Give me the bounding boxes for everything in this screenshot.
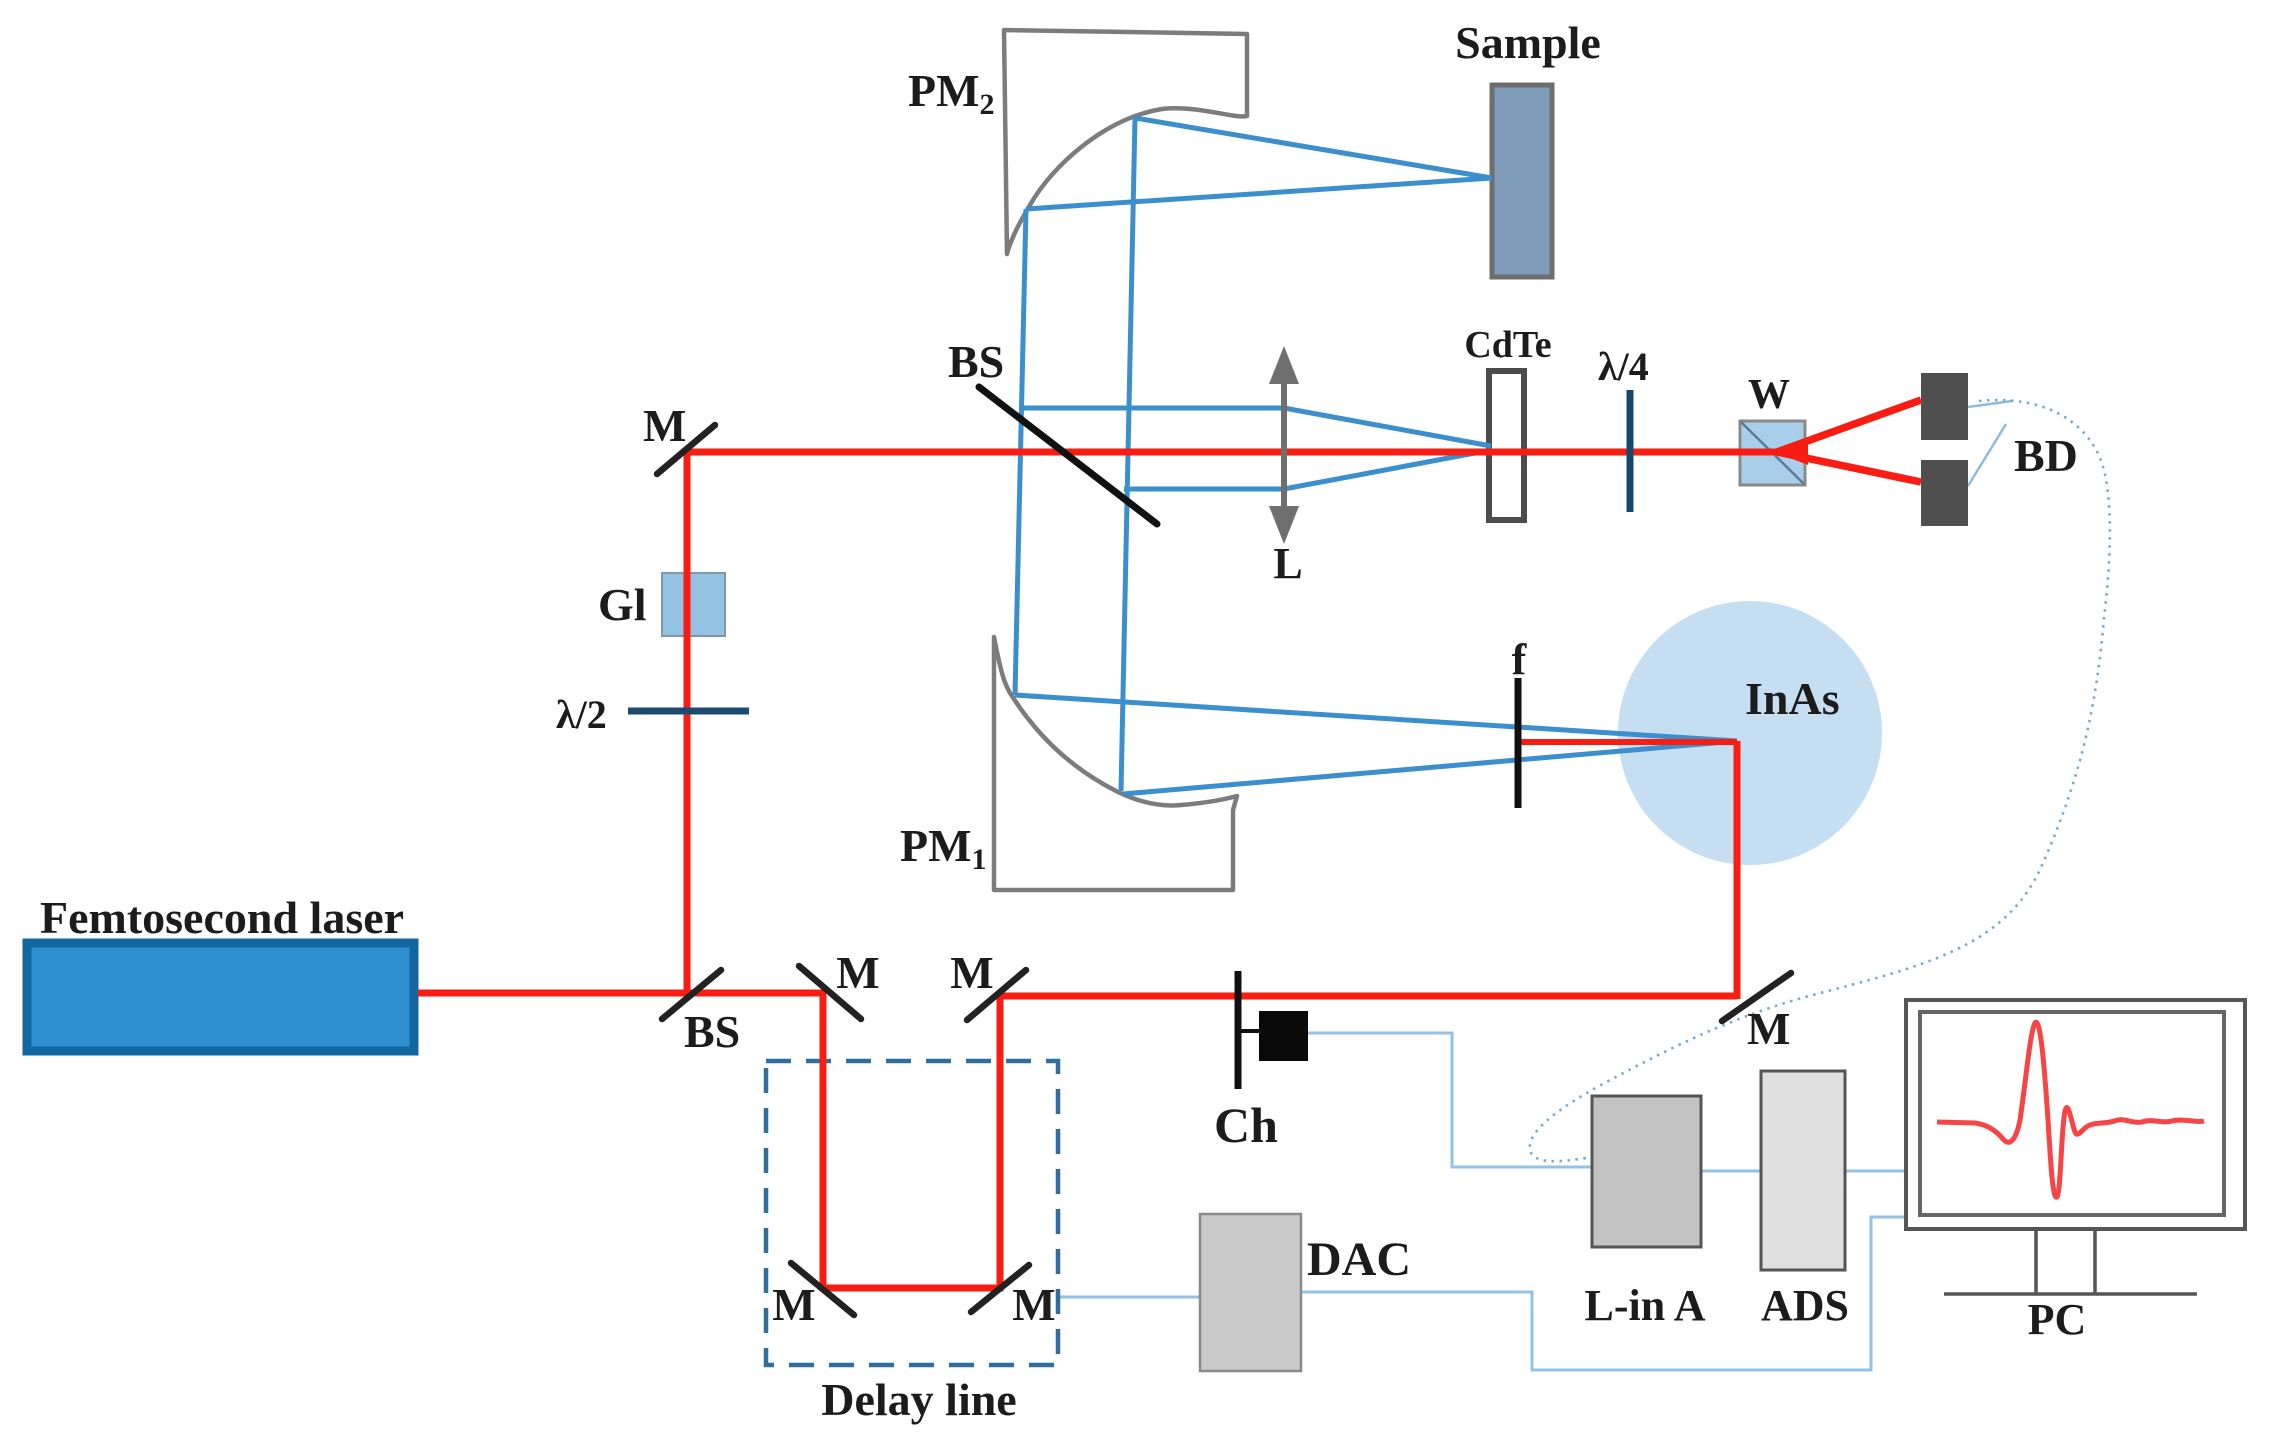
- wire THz beam PM2 to Sample upper: [1135, 118, 1492, 178]
- wire red delay line up: [997, 996, 1004, 1291]
- wire THz beam BS to lens lower: [1124, 450, 1491, 489]
- wire dashed cable BD to L-in A: [1530, 400, 2110, 1161]
- mirror M delay exit: [967, 970, 1026, 1020]
- balanced detector BD bottom: [1921, 460, 1968, 526]
- node InAs emitter circle: [1618, 601, 1882, 865]
- wire red beam W to BD bottom: [1777, 452, 1921, 482]
- Wollaston prism W: [1740, 421, 1805, 485]
- svg-text:Gl: Gl: [598, 579, 647, 630]
- wire red beam W to BD top: [1777, 400, 1921, 452]
- wire THz beam PM1 to InAs upper: [1015, 695, 1737, 741]
- wire ADS to PC monitor: [1845, 1170, 1906, 1173]
- lock-in amplifier L-in A box: [1592, 1096, 1701, 1247]
- svg-text:L-in A: L-in A: [1584, 1281, 1705, 1330]
- svg-text:Ch: Ch: [1214, 1097, 1278, 1153]
- THz waveform trace: [1937, 1022, 2204, 1197]
- mirror M delay entrance: [799, 966, 861, 1019]
- mirror M delay bottom right: [971, 1265, 1029, 1312]
- svg-text:BS: BS: [948, 336, 1004, 387]
- crystal CdTe: [1489, 371, 1524, 520]
- DAC box: [1200, 1214, 1301, 1371]
- svg-text:M: M: [1747, 1003, 1790, 1054]
- lens L arrow: [1281, 374, 1287, 516]
- wire red beam BS up to mirror M: [684, 450, 691, 996]
- wire red beam f to InAs focus: [1520, 739, 1737, 745]
- svg-text:L: L: [1273, 539, 1302, 588]
- svg-text:Delay line: Delay line: [821, 1374, 1016, 1425]
- svg-text:Femtosecond laser: Femtosecond laser: [40, 892, 404, 943]
- svg-text:PM2: PM2: [908, 65, 995, 121]
- wire red arrowhead at W: [1774, 439, 1808, 465]
- mirror M delay bottom left: [791, 1263, 854, 1315]
- PC monitor: [1906, 1000, 2245, 1229]
- wire Ch to lock-in amplifier: [1308, 1033, 1592, 1167]
- wire L-in A to ADS: [1701, 1170, 1761, 1173]
- mirror M far right: [1722, 973, 1791, 1021]
- balanced detector BD top: [1921, 373, 1968, 440]
- polarizer Gl: [662, 573, 725, 636]
- wire red probe beam M to W: [687, 449, 1777, 456]
- wire red pump beam to far mirror: [997, 993, 1737, 1000]
- ADS box: [1761, 1071, 1845, 1270]
- sample plate: [1492, 85, 1552, 277]
- wire red beam laser to delay mirror: [418, 990, 826, 997]
- svg-text:InAs: InAs: [1745, 673, 1840, 724]
- wire THz vertical beam left: [1015, 209, 1026, 695]
- parabolic mirror PM1: [994, 637, 1237, 890]
- svg-text:λ/2: λ/2: [556, 692, 607, 737]
- wire THz beam BS to lens upper: [1023, 408, 1491, 446]
- svg-text:M: M: [1012, 1279, 1055, 1330]
- svg-text:f: f: [1512, 635, 1528, 684]
- svg-text:DAC: DAC: [1307, 1233, 1411, 1286]
- waveplate lambda/2: [628, 708, 749, 715]
- wire THz beam PM2 to Sample lower: [1026, 178, 1492, 209]
- wire BD bottom detector lead: [1968, 424, 2006, 486]
- wire THz vertical beam right: [1121, 118, 1135, 791]
- svg-text:M: M: [643, 400, 686, 451]
- svg-text:BD: BD: [2014, 430, 2078, 481]
- wire BD top detector lead: [1968, 401, 2012, 407]
- svg-text:λ/4: λ/4: [1598, 344, 1649, 389]
- svg-text:PM1: PM1: [900, 820, 987, 876]
- svg-text:Sample: Sample: [1455, 17, 1601, 68]
- chopper Ch: [1235, 971, 1242, 1089]
- PC stand: [2036, 1229, 2095, 1294]
- svg-text:ADS: ADS: [1761, 1281, 1849, 1330]
- svg-text:M: M: [772, 1279, 815, 1330]
- wire THz beam PM1 to InAs lower: [1123, 741, 1737, 794]
- svg-text:W: W: [1748, 372, 1790, 418]
- wire red delay line down: [820, 990, 827, 1288]
- svg-text:CdTe: CdTe: [1464, 324, 1551, 366]
- filter f: [1515, 678, 1522, 808]
- beamsplitter BS pellicle (top): [979, 387, 1157, 524]
- waveplate lambda/4: [1627, 390, 1634, 512]
- svg-text:BS: BS: [684, 1006, 740, 1057]
- svg-text:M: M: [950, 947, 993, 998]
- wire red delay line bottom: [820, 1285, 1003, 1292]
- wire delay line to DAC: [1058, 1296, 1200, 1299]
- wire DAC to PC monitor: [1301, 1217, 1906, 1370]
- svg-text:M: M: [836, 947, 879, 998]
- mirror M (top left): [657, 425, 715, 474]
- beamsplitter BS (bottom): [662, 970, 721, 1019]
- svg-text:PC: PC: [2028, 1295, 2087, 1344]
- parabolic mirror PM2: [1004, 30, 1247, 254]
- delay line dashed box: [766, 1061, 1058, 1365]
- wire red pump beam up to InAs: [1734, 741, 1741, 999]
- femtosecond laser box: [27, 943, 414, 1051]
